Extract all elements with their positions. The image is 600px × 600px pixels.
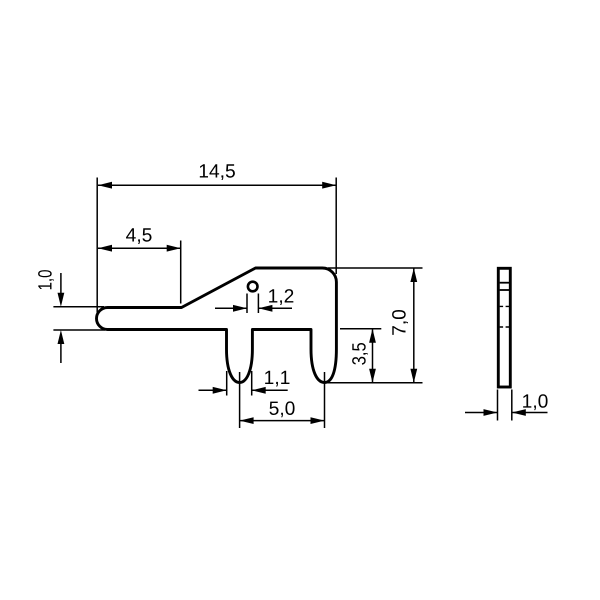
extension line bottom	[327, 382, 423, 384]
arrow line right	[258, 307, 292, 309]
extension line right	[251, 371, 253, 396]
label 1,0 left	[38, 270, 54, 289]
part outline (front view profile)	[97, 268, 337, 383]
dimension 1,0 left (tail thickness)	[53, 273, 105, 363]
arrowheads 1,1	[213, 387, 266, 394]
side view edge line 2	[500, 289, 510, 291]
arrowheads 7,0	[410, 268, 417, 383]
side view hidden line 2	[500, 326, 510, 328]
dimension 4,5	[98, 241, 181, 304]
dimension 1,2 (hole diameter)	[215, 294, 292, 314]
label 1,1	[265, 371, 289, 387]
side view outline	[498, 268, 510, 387]
dimension 7,0	[327, 268, 423, 383]
dimension line	[98, 247, 181, 249]
dimension line	[98, 184, 336, 186]
label 14,5	[200, 164, 235, 180]
dimension 3,5	[340, 329, 381, 383]
extension line left	[497, 390, 499, 421]
side view edge line 1	[500, 282, 510, 284]
arrowheads 4,5	[98, 245, 181, 252]
arrowheads 14,5	[98, 182, 336, 189]
dimension leader below	[60, 344, 62, 364]
extension line right	[180, 241, 182, 304]
dimension 1,1 (prong width)	[199, 371, 288, 396]
extension line left	[96, 178, 98, 313]
dimension line	[240, 420, 325, 422]
extension line top	[328, 267, 423, 269]
label 1,0 side	[523, 394, 547, 410]
extension line top	[53, 306, 104, 308]
arrowheads 1,2	[233, 305, 272, 312]
arrowheads 5,0	[240, 417, 325, 424]
dimension 14,5	[97, 178, 336, 313]
extension line right	[257, 294, 259, 314]
arrow line left	[465, 412, 498, 414]
label 5,0	[269, 401, 294, 417]
dimension 5,0 (prong spacing)	[240, 372, 325, 428]
label 7,0	[392, 310, 408, 335]
extension line right	[324, 372, 326, 428]
extension line left	[226, 371, 228, 396]
label 3,5	[352, 343, 368, 365]
dimension line	[413, 268, 415, 383]
hole (d 1,2)	[248, 282, 258, 292]
dimension leader above	[60, 273, 62, 294]
arrow line right	[512, 412, 548, 414]
side view hidden line 1	[500, 305, 510, 307]
arrow line left	[199, 389, 227, 391]
extension line left	[239, 372, 241, 428]
arrow line right	[252, 389, 288, 391]
arrow line left	[215, 307, 247, 309]
arrowheads 1,0 left	[58, 293, 65, 344]
extension line bottom	[53, 329, 105, 331]
arrowheads 1,0 side	[484, 409, 526, 416]
extension line right	[335, 178, 337, 275]
dimension line	[372, 329, 374, 383]
extension line left	[246, 294, 248, 314]
dimension 1,0 side view (thickness)	[465, 390, 548, 421]
label 1,2	[269, 289, 293, 305]
extension line right	[511, 390, 513, 421]
arrowheads 3,5	[369, 329, 376, 383]
label 4,5	[126, 228, 152, 244]
extension line top	[340, 328, 381, 330]
